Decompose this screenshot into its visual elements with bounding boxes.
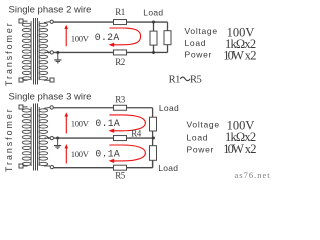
- svg-text:Power: Power: [185, 50, 213, 60]
- svg-text:100V: 100V: [71, 119, 90, 129]
- svg-text:Load: Load: [159, 103, 179, 113]
- svg-text:x2: x2: [245, 142, 256, 156]
- svg-text:100V: 100V: [71, 34, 90, 44]
- svg-text:0.1A: 0.1A: [95, 149, 120, 160]
- svg-text:0.1A: 0.1A: [95, 118, 120, 129]
- svg-text:Voltage: Voltage: [187, 119, 220, 129]
- svg-text:R3: R3: [115, 95, 126, 105]
- svg-text:Power: Power: [187, 144, 215, 154]
- svg-text:Single phase 2 wire: Single phase 2 wire: [9, 5, 92, 16]
- svg-text:Load: Load: [185, 38, 207, 48]
- svg-text:x2: x2: [245, 49, 256, 63]
- svg-text:R5: R5: [115, 170, 126, 180]
- svg-text:Single phase 3 wire: Single phase 3 wire: [9, 92, 92, 103]
- svg-text:10W: 10W: [223, 142, 244, 156]
- svg-text:Load: Load: [187, 133, 209, 143]
- svg-text:Transfomer: Transfomer: [4, 107, 14, 172]
- svg-text:R1: R1: [115, 7, 125, 17]
- svg-text:R5: R5: [190, 75, 202, 86]
- svg-text:10W: 10W: [223, 49, 244, 63]
- svg-text:as76.net: as76.net: [235, 170, 271, 180]
- svg-text:100V: 100V: [71, 149, 90, 159]
- svg-text:0.2A: 0.2A: [95, 32, 120, 43]
- svg-text:R2: R2: [115, 57, 125, 67]
- svg-text:Transfomer: Transfomer: [4, 21, 14, 86]
- svg-text:Load: Load: [158, 163, 178, 173]
- svg-text:Load: Load: [143, 8, 163, 18]
- svg-text:R4: R4: [131, 129, 142, 139]
- svg-text:R1: R1: [169, 75, 181, 86]
- svg-text:Voltage: Voltage: [185, 26, 218, 36]
